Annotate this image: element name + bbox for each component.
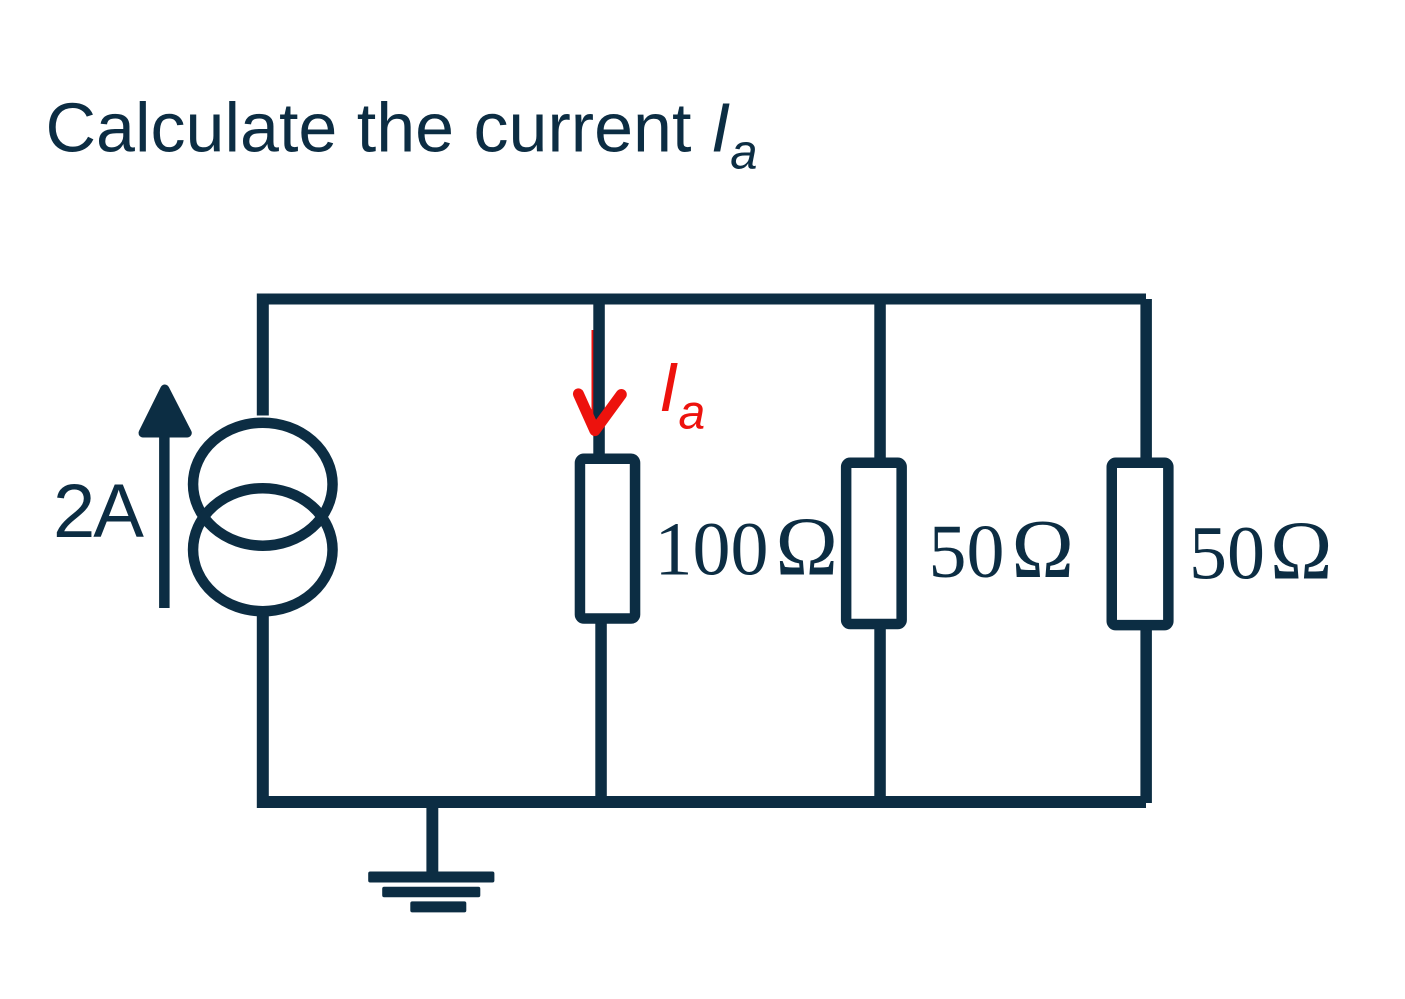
svg-text:2A: 2A: [53, 469, 144, 554]
current arrow Ia (red shaft, under wire): [592, 330, 602, 428]
wire: 100-ohm branch bottom stub: [595, 622, 607, 797]
wire: left vertical from source to bottom bus: [257, 614, 269, 808]
resistor R1 100 ohm: [580, 459, 635, 619]
source direction arrow (up): [143, 389, 187, 608]
ground symbol: [368, 806, 494, 912]
wire: middle 50-ohm branch top stub: [874, 304, 886, 459]
wire: right 50-ohm branch bottom stub: [1140, 629, 1152, 803]
svg-text:50Ω: 50Ω: [1189, 504, 1332, 597]
wire: left vertical from top bus to source: [257, 294, 269, 416]
svg-text:100Ω: 100Ω: [655, 501, 838, 594]
wire: top horizontal bus: [257, 294, 1146, 305]
svg-text:Ia: Ia: [659, 348, 705, 440]
resistor R3 50 ohm (right): [1112, 463, 1169, 625]
svg-text:Calculate the current Ia: Calculate the current Ia: [46, 89, 758, 180]
resistor R2 50 ohm (middle): [846, 463, 902, 624]
current arrow Ia (red V head over wire): [578, 394, 621, 431]
wire: bottom horizontal bus: [257, 796, 1146, 808]
wire: 100-ohm branch top stub: [593, 304, 605, 455]
svg-text:50Ω: 50Ω: [929, 503, 1074, 596]
current source I1 (two overlapping ellipses): [193, 423, 333, 612]
wire: right 50-ohm branch top stub: [1140, 299, 1152, 459]
wire: middle 50-ohm branch bottom stub: [874, 628, 886, 797]
